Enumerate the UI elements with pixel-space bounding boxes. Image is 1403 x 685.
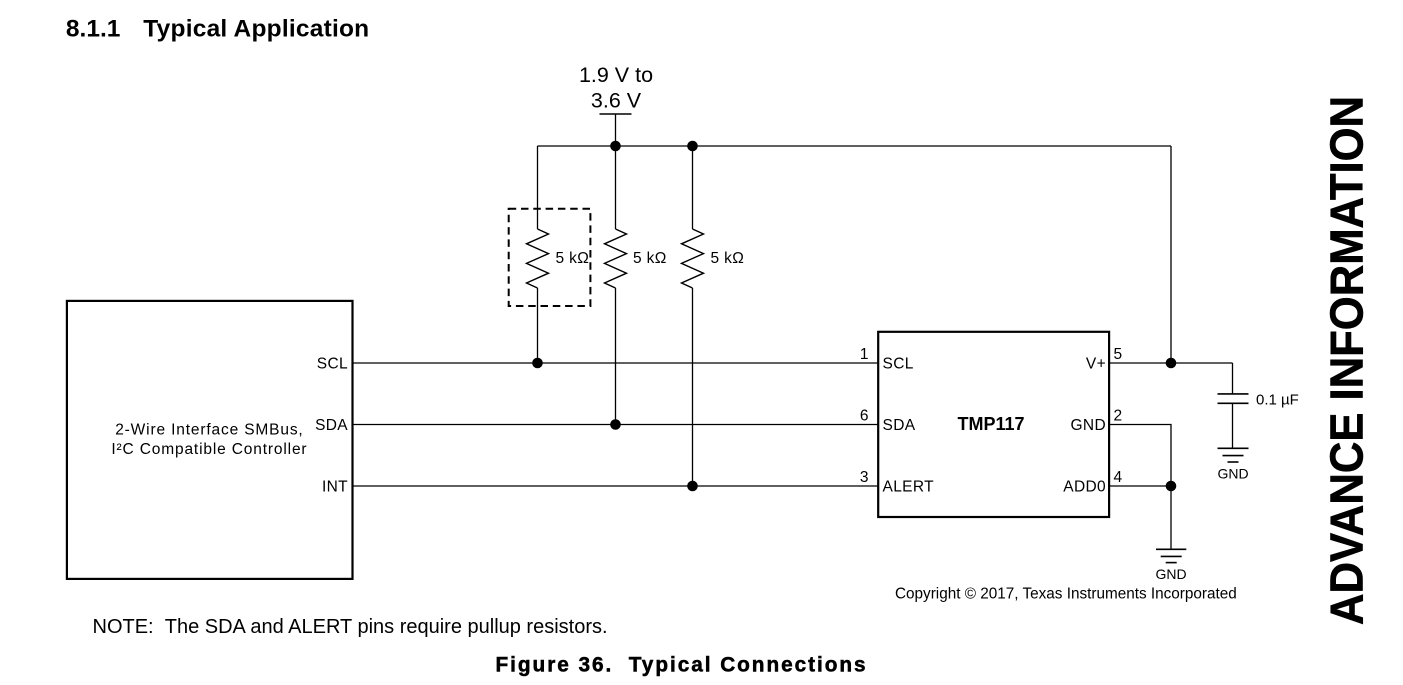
supply label 1.9 V to 3.6 V <box>579 63 653 113</box>
wire SDA net <box>353 424 879 426</box>
wire supply drop <box>615 114 617 146</box>
capacitor C1 lead bottom <box>1232 403 1234 448</box>
wire power rail <box>538 145 1172 147</box>
svg-text:1.9 V to: 1.9 V to <box>579 63 653 87</box>
svg-text:SCL: SCL <box>883 355 914 372</box>
node junction V+ <box>1166 358 1177 369</box>
wire GND pin2 to node <box>1110 425 1172 487</box>
node junction rail-R3 <box>687 141 698 152</box>
wire rail right drop to V+ <box>1170 146 1172 363</box>
svg-text:SDA: SDA <box>883 417 916 434</box>
svg-text:Copyright © 2017, Texas Instru: Copyright © 2017, Texas Instruments Inco… <box>895 586 1237 603</box>
svg-text:5 kΩ: 5 kΩ <box>711 250 745 267</box>
resistor R2 5 kOhm <box>605 146 627 425</box>
controller box 2-Wire Interface SMBus I2C Compatible Controller <box>67 301 353 579</box>
wire V+ net <box>1110 362 1233 364</box>
svg-text:3.6 V: 3.6 V <box>591 89 642 113</box>
wire ADD0 net <box>1110 485 1172 487</box>
svg-text:ALERT: ALERT <box>883 478 935 495</box>
svg-text:NOTE: The SDA and ALERT pins: NOTE: The SDA and ALERT pins require pul… <box>93 616 608 638</box>
dashed box optional resistor <box>509 209 591 306</box>
wire node down to ground <box>1170 486 1172 549</box>
supply bar <box>600 113 632 115</box>
label controller description <box>111 421 307 458</box>
svg-text:ADD0: ADD0 <box>1063 478 1106 495</box>
svg-text:TMP117: TMP117 <box>957 414 1024 434</box>
node junction SDA-R2 <box>610 419 621 430</box>
svg-text:SCL: SCL <box>317 355 348 372</box>
svg-text:SDA: SDA <box>315 417 348 434</box>
svg-text:5 kΩ: 5 kΩ <box>556 250 590 267</box>
capacitor C1 lead top <box>1232 363 1234 394</box>
svg-text:2: 2 <box>1114 408 1123 425</box>
wire SCL net <box>353 362 879 364</box>
svg-text:ADVANCE INFORMATION: ADVANCE INFORMATION <box>1321 96 1373 625</box>
svg-text:4: 4 <box>1114 469 1123 486</box>
node junction ADD0-GND <box>1166 481 1177 492</box>
wire INT-ALERT net <box>353 485 879 487</box>
svg-text:1: 1 <box>860 346 869 363</box>
resistor R1 5 kOhm <box>527 229 549 363</box>
svg-text:Typical Application: Typical Application <box>143 15 369 42</box>
svg-text:0.1 µF: 0.1 µF <box>1256 392 1299 409</box>
svg-text:5: 5 <box>1114 346 1123 363</box>
ground symbol below ADD0 <box>1156 549 1186 562</box>
svg-text:INT: INT <box>322 478 348 495</box>
svg-text:6: 6 <box>860 408 869 425</box>
svg-text:5 kΩ: 5 kΩ <box>633 250 667 267</box>
resistor R3 5 kOhm <box>682 146 704 486</box>
section title 8.1.1 Typical Application <box>66 15 369 42</box>
svg-text:Figure 36. Typical Connection: Figure 36. Typical Connections <box>496 654 868 677</box>
svg-text:V+: V+ <box>1086 355 1106 372</box>
svg-text:2-Wire Interface SMBus,: 2-Wire Interface SMBus, <box>115 421 303 438</box>
svg-text:GND: GND <box>1071 417 1107 434</box>
node junction ALERT-R3 <box>687 481 698 492</box>
svg-text:I²C Compatible Controller: I²C Compatible Controller <box>111 441 307 458</box>
svg-text:GND: GND <box>1217 466 1248 482</box>
svg-text:8.1.1: 8.1.1 <box>66 15 121 42</box>
node junction SCL-R1 <box>532 358 543 369</box>
capacitor C1 plates <box>1218 394 1249 403</box>
svg-text:3: 3 <box>860 469 869 486</box>
wire rail left drop to R1 <box>537 146 539 229</box>
node junction rail-supply <box>610 141 621 152</box>
IC U1 TMP117 box <box>878 332 1109 517</box>
ground symbol below C1 <box>1218 448 1249 462</box>
svg-text:GND: GND <box>1155 566 1186 582</box>
